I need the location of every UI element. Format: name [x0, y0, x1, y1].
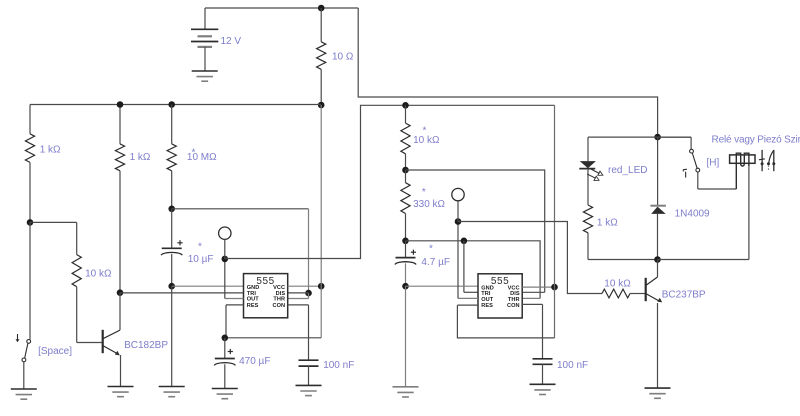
svg-text:[Space]: [Space] — [38, 346, 72, 357]
node R5-R6 — [402, 167, 409, 174]
relay contact NO — [772, 150, 775, 171]
label Rele vagy Piezo Szir — [712, 135, 800, 146]
capacitor C1 10uF — [161, 209, 182, 286]
label red_LED — [608, 165, 647, 176]
wire OUT U2 up — [457, 222, 459, 299]
relay contact moving — [767, 151, 774, 172]
wire R8 to collector node — [588, 259, 658, 261]
wire OUT U1 stub — [225, 298, 244, 300]
switch H press mark — [683, 169, 687, 177]
svg-text:1 kΩ: 1 kΩ — [130, 152, 151, 163]
wire CON U2 stub — [522, 303, 542, 305]
plus C1 — [177, 240, 182, 245]
resistor R4 10M — [167, 105, 176, 209]
node switch top — [27, 219, 34, 226]
wire VCC U1 stub — [288, 285, 322, 287]
svg-text:100 nF: 100 nF — [323, 360, 354, 371]
svg-text:10 µF: 10 µF — [188, 254, 214, 265]
wire DIS U1 stub — [288, 292, 309, 294]
label R3 10 kOhm — [85, 269, 112, 280]
svg-text:OUT: OUT — [481, 297, 494, 303]
svg-text:CON: CON — [272, 303, 285, 309]
LED arrows — [587, 169, 603, 180]
svg-text:1 kΩ: 1 kΩ — [40, 144, 61, 155]
wire OUT U1 to second stage supply — [225, 105, 555, 258]
svg-text:THR: THR — [508, 297, 520, 303]
label 10 Ohm — [332, 52, 354, 63]
ground switch — [11, 389, 37, 399]
svg-text:red_LED: red_LED — [608, 165, 647, 176]
wire collector node to relay — [658, 259, 749, 261]
wire top rail down to right rail — [358, 8, 657, 137]
capacitor C4 4.7uF — [395, 241, 416, 286]
label C5 100 nF — [557, 360, 588, 371]
wire THR U2 loop — [406, 241, 541, 299]
wire CON U1 stub — [288, 304, 309, 306]
wire supply down to U2 — [554, 105, 556, 338]
wire node to DIS U1 horizontal — [172, 208, 309, 210]
wire THR U2 stub — [522, 297, 540, 299]
svg-text:1N4009: 1N4009 — [675, 209, 710, 220]
label R7 10 kOhm — [604, 279, 631, 290]
node TRI U2 tie — [461, 238, 468, 245]
ground C3 — [296, 385, 322, 395]
svg-text:*: * — [198, 242, 202, 253]
label R8 1 kOhm — [597, 217, 618, 228]
resistor R2 1k — [115, 105, 124, 293]
ground battery — [192, 71, 218, 81]
resistor R3 10k — [72, 222, 81, 342]
capacitor C2 470uF — [214, 338, 235, 389]
svg-text:THR: THR — [273, 297, 285, 303]
star C1 — [198, 242, 202, 253]
probe P2 — [452, 188, 464, 221]
svg-text:Relé vagy Piezó Szir: Relé vagy Piezó Szir — [712, 135, 800, 146]
wire VCC U2 stub — [522, 286, 554, 288]
star R5 — [423, 126, 427, 137]
relay K1 coil — [730, 153, 755, 189]
capacitor C3 100nF — [299, 360, 319, 385]
resistor R7 10k base — [602, 289, 630, 298]
svg-text:470 µF: 470 µF — [239, 356, 270, 367]
switch [H] — [658, 137, 700, 189]
wire TR1 from collector — [120, 292, 244, 294]
wire left supply rail — [30, 104, 321, 106]
label R6 330 kOhm — [413, 199, 445, 210]
wire GND U1 stub — [172, 285, 244, 287]
label BC182BP — [124, 340, 168, 351]
diode D1 1N4009 — [650, 137, 666, 259]
svg-text:OUT: OUT — [247, 297, 260, 303]
svg-text:BC182BP: BC182BP — [124, 340, 168, 351]
label C3 100 nF — [323, 360, 354, 371]
capacitor C5 100nF — [533, 359, 553, 385]
node second stage supply — [402, 102, 409, 109]
star C4 — [429, 244, 433, 255]
ground C4 — [393, 387, 419, 397]
wire GND U2 stub — [406, 285, 479, 287]
transistor Q2 BC237BP — [646, 260, 663, 389]
star R6 — [422, 187, 426, 198]
svg-text:100 nF: 100 nF — [557, 360, 588, 371]
label [Space] — [38, 346, 72, 357]
node VCC U2 — [551, 284, 558, 291]
wire DIS-THR tie — [308, 293, 310, 298]
resistor R6 330k — [401, 170, 410, 241]
ground C2 — [212, 389, 238, 399]
wire VCC rail down U1 — [320, 105, 322, 338]
resistor R1 1k — [25, 105, 34, 223]
wire base Q1 — [77, 342, 102, 344]
battery B1 12V — [191, 8, 218, 71]
ground Q2 emitter — [645, 388, 671, 398]
node 10M top — [168, 101, 175, 108]
wire OUT U2 to Q2 base resistor — [458, 222, 602, 294]
node OUT U1 — [222, 256, 229, 263]
label C2 470 uF — [239, 356, 270, 367]
node GND U2 — [402, 283, 409, 290]
node GND U1 — [168, 283, 175, 290]
svg-text:330 kΩ: 330 kΩ — [413, 199, 445, 210]
node DIS U1 — [305, 290, 312, 297]
node RES-VCC-C2 junction — [222, 335, 229, 342]
wire switch H to relay — [698, 188, 737, 190]
ground C5 — [530, 384, 556, 394]
resistor R8 1k — [583, 205, 592, 260]
wire C4 to ground — [405, 286, 407, 387]
node VCC U1 — [318, 283, 325, 290]
resistor 10 Ohm — [317, 8, 326, 105]
wire TRI U2 down — [463, 241, 465, 292]
label R5 10 kOhm — [413, 135, 440, 146]
svg-text:RES: RES — [481, 303, 493, 309]
svg-text:10 kΩ: 10 kΩ — [85, 269, 112, 280]
svg-text:10 MΩ: 10 MΩ — [187, 152, 217, 163]
wire RES U2 stub — [457, 304, 478, 306]
node collector Q1 — [117, 289, 124, 296]
probe P1 — [219, 227, 231, 259]
label 1N4009 — [675, 209, 710, 220]
plus C4 — [411, 250, 416, 255]
plus C2 — [228, 349, 233, 354]
node R4 bottom — [168, 206, 175, 213]
node collector Q2 — [654, 256, 661, 263]
star R4 — [192, 148, 196, 159]
switch [Space] — [22, 222, 31, 389]
wire RES loop bottom U1 — [225, 337, 321, 339]
resistor R5 10k — [401, 105, 410, 170]
wire LED feed — [588, 136, 691, 138]
op-amp U1 555 timer — [244, 274, 288, 318]
transistor Q1 BC182BP — [103, 293, 121, 387]
node supply mid rail — [318, 102, 325, 109]
node top rail to R 10ohm — [318, 5, 325, 12]
wire relay right pin — [748, 163, 750, 260]
node right rail — [654, 134, 661, 141]
svg-text:*: * — [429, 244, 433, 255]
op-amp U2 555 timer — [478, 274, 522, 318]
wire RES U1 stub — [226, 304, 244, 306]
wire CON U2 down — [542, 304, 544, 358]
switch press arrow — [16, 334, 20, 342]
node OUT U2 — [455, 218, 462, 225]
wire OUT U2 stub — [458, 297, 478, 299]
LED red_LED — [579, 137, 596, 205]
wire top rail — [205, 7, 358, 9]
node R6 bottom — [402, 238, 409, 245]
svg-text:12 V: 12 V — [221, 36, 242, 47]
label C1 10 uF — [188, 254, 214, 265]
battery value 12 V — [221, 36, 242, 47]
wire RES loop U2 — [457, 305, 554, 338]
relay contact common — [759, 150, 765, 171]
wire DIS U2 stub — [522, 291, 545, 293]
svg-text:*: * — [422, 187, 426, 198]
wire node to DIS U1 vertical — [308, 209, 310, 293]
wire RES U1 down — [225, 305, 227, 338]
svg-text:1 kΩ: 1 kΩ — [597, 217, 618, 228]
wire THR U1 — [288, 298, 309, 300]
label R2 1 kOhm — [130, 152, 151, 163]
wire node to 10k branch — [30, 221, 77, 223]
svg-text:[H]: [H] — [707, 158, 720, 169]
svg-text:4.7 µF: 4.7 µF — [421, 257, 450, 268]
wire CON U1 down — [308, 305, 310, 360]
label C4 4.7 uF — [421, 257, 450, 268]
svg-text:RES: RES — [247, 303, 259, 309]
label R4 10 MOhm — [187, 152, 217, 163]
node R2 bottom — [117, 101, 124, 108]
ground C1 — [159, 387, 185, 397]
wire R7 to base — [630, 293, 645, 295]
svg-text:10 kΩ: 10 kΩ — [413, 135, 440, 146]
wire OUT U1 up — [224, 259, 226, 299]
svg-text:10 kΩ: 10 kΩ — [604, 279, 631, 290]
wire TRI U2 stub — [464, 291, 478, 293]
svg-text:BC237BP: BC237BP — [662, 290, 706, 301]
wire DIS U2 loop — [406, 170, 545, 292]
svg-text:10 Ω: 10 Ω — [332, 52, 354, 63]
label BC237BP — [662, 290, 706, 301]
svg-text:CON: CON — [507, 303, 520, 309]
label [H] — [707, 158, 720, 169]
ground Q1 emitter — [108, 387, 134, 397]
label R1 1 kOhm — [40, 144, 61, 155]
wire C1 to ground — [171, 286, 173, 386]
